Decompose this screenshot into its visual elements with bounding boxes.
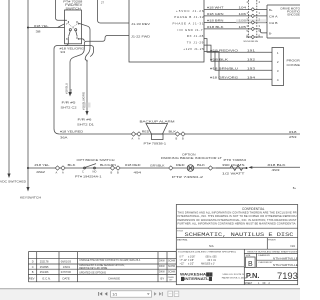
svg-text:OPT BRAKE SWITCH: OPT BRAKE SWITCH: [77, 158, 115, 162]
svg-text:J1-22 FWD: J1-22 FWD: [131, 35, 151, 39]
svg-text:NTN-HARTVILLE: NTN-HARTVILLE: [273, 257, 299, 260]
svg-text:#18 BLK: #18 BLK: [268, 163, 286, 167]
svg-text:DRAWN BY: DRAWN BY: [258, 254, 270, 257]
svg-text:I/O GND J1-7: I/O GND J1-7: [178, 28, 203, 32]
wire switch term5 down: [78, 23, 90, 62]
svg-text:191: 191: [247, 49, 256, 53]
svg-text:GRY/BLK: GRY/BLK: [150, 163, 165, 167]
svg-text:MATERIAL: MATERIAL: [177, 238, 189, 241]
svg-text:FURTHER, ALL INFORMATION CONTA: FURTHER, ALL INFORMATION CONTAINED HEREI…: [178, 221, 296, 225]
svg-text:DATE: DATE: [63, 277, 70, 281]
mate diamonds: [251, 8, 255, 11]
svg-text:BACKUP ALARM: BACKUP ALARM: [140, 119, 176, 123]
svg-text:B+: B+: [269, 8, 273, 12]
svg-text:D: D: [32, 260, 34, 264]
svg-text:SCHEMATIC, NAUTILUS E DISC: SCHEMATIC, NAUTILUS E DISC: [185, 231, 295, 238]
wire left vertical 1: [8, 0, 10, 174]
svg-text:CONFIDENTIAL: CONFIDENTIAL: [242, 207, 265, 211]
svg-text:THIS DRAWING AND ALL INFORMATI: THIS DRAWING AND ALL INFORMATION CONTAIN…: [178, 211, 297, 215]
svg-text:N/A: N/A: [291, 244, 296, 248]
svg-text:KEYSWITCH: KEYSWITCH: [20, 195, 41, 199]
svg-text:FINISH: FINISH: [268, 239, 276, 241]
wire #18 YEL 38: [28, 24, 65, 28]
ENCODER wires + connector: [204, 0, 301, 43]
svg-text:106: 106: [239, 12, 247, 16]
FWD/REV SWITCH group: [28, 0, 129, 134]
svg-text:NO: NO: [93, 170, 97, 174]
connector B pair: [110, 166, 114, 170]
svg-text:B-: B-: [269, 32, 272, 36]
svg-text:#18 BRN/BLU: #18 BRN/BLU: [210, 67, 238, 71]
junction node at keyswitch wire / #18 YEL 38: [27, 26, 29, 28]
encoder box: [267, 5, 300, 38]
svg-text:CHKD: CHKD: [168, 277, 175, 279]
svg-text:RED: RED: [176, 163, 185, 167]
svg-text:SHT2 C2: SHT2 C2: [61, 106, 78, 110]
svg-text:194: 194: [247, 76, 256, 80]
junction node at keyswitch wire / #18 YEL 492: [27, 167, 29, 169]
svg-text:± 1/2": ± 1/2": [188, 263, 194, 265]
REVISION TABLE: [28, 252, 176, 282]
svg-text:>12": >12": [180, 262, 185, 265]
svg-text:A: A: [132, 136, 134, 140]
svg-text:CHANGE THE MOTOR CNT BKR TO 30: CHANGE THE MOTOR CNT BKR TO 30 AMP, WAS …: [79, 259, 140, 262]
svg-text:#18 BRN: #18 BRN: [207, 19, 224, 23]
wire #18 WHT 104: [204, 8, 267, 10]
svg-text:36A: 36A: [60, 136, 68, 140]
svg-text:DKW: DKW: [159, 265, 165, 268]
connector halves dashed: [248, 0, 250, 39]
wire switch term6 stub: [78, 39, 84, 41]
svg-text:SWITCH: SWITCH: [66, 7, 81, 11]
svg-text:± 1/8": ± 1/8": [188, 260, 194, 262]
svg-text:A: A: [62, 170, 64, 174]
CONTROLLER box U1: [129, 0, 204, 62]
svg-text:253: 253: [289, 135, 297, 139]
svg-text:REMOVE BURRS AND BREAK SHARP E: REMOVE BURRS AND BREAK SHARP EDGES: [247, 250, 298, 253]
svg-text:DKW: DKW: [159, 270, 165, 273]
svg-text:NTN-HARTVILLE: NTN-HARTVILLE: [273, 264, 299, 267]
svg-text:BLK: BLK: [68, 163, 76, 167]
svg-text:PHASE B J1-32: PHASE B J1-32: [174, 15, 204, 19]
svg-text:7193: 7193: [277, 270, 298, 281]
svg-text:PARKING BRAKE INDICATOR LT: PARKING BRAKE INDICATOR LT: [161, 156, 222, 160]
svg-text:B: B: [117, 170, 119, 174]
svg-text:193: 193: [247, 67, 256, 71]
svg-text:390 OHMS: 390 OHMS: [222, 163, 245, 167]
svg-text:REMOVE KEY-LRC WIRE: REMOVE KEY-LRC WIRE: [79, 267, 107, 270]
svg-text:TITLE: TITLE: [177, 230, 183, 232]
wire #18 GRN 106: [204, 15, 267, 17]
svg-text:TX J1-29: TX J1-29: [187, 40, 204, 44]
svg-text:SHEET: SHEET: [245, 283, 253, 285]
svg-text:#18: #18: [289, 130, 297, 134]
wire #18 BLK 192: [204, 45, 272, 61]
svg-text:104: 104: [239, 6, 247, 10]
svg-text:REV: REV: [29, 277, 35, 281]
svg-text:34: 34: [60, 50, 65, 54]
BACKUP ALARM row wire #18 YEL/RED 36A: [59, 119, 300, 145]
svg-text:+12V J1-25: +12V J1-25: [183, 47, 204, 51]
logo: [180, 272, 213, 282]
svg-text:P.N.: P.N.: [246, 271, 260, 280]
svg-text:B: B: [32, 270, 34, 274]
svg-text:RX J1-28: RX J1-28: [187, 34, 204, 38]
wire #18 BLK 105: [204, 29, 267, 33]
svg-text:105: 105: [239, 25, 247, 29]
wire: [28, 167, 247, 169]
svg-text:252178: 252178: [40, 260, 49, 264]
svg-text:ENCODE: ENCODE: [288, 13, 301, 17]
svg-text:SCHM: SCHM: [168, 270, 175, 273]
svg-text:SIZE: SIZE: [246, 255, 251, 257]
svg-text:#18 RED/VIO: #18 RED/VIO: [210, 49, 239, 53]
svg-text:251406: 251406: [40, 270, 49, 274]
svg-text:A: A: [138, 136, 140, 140]
svg-text:#18 BLK: #18 BLK: [210, 58, 228, 62]
wire from top to switch term 7: [56, 0, 68, 20]
svg-text:A: A: [56, 170, 58, 174]
svg-text:.00 ± .01: .00 ± .01: [207, 260, 217, 262]
junction node at resistor output: [246, 167, 248, 169]
wire #18 RED/VIO 191: [204, 39, 272, 53]
TITLE BLOCK: [176, 205, 297, 285]
svg-text:PERMISSION OF WAUKESHA INTERNA: PERMISSION OF WAUKESHA INTERNATIONAL, IN…: [178, 218, 297, 222]
svg-text:PT# 749663: PT# 749663: [224, 158, 247, 162]
stub pin6: [246, 36, 263, 38]
svg-text:B+: B+: [293, 186, 297, 190]
svg-text:B: B: [176, 136, 178, 140]
svg-text:SCHM: SCHM: [168, 260, 175, 263]
svg-text:+5VDC J1-26: +5VDC J1-26: [176, 9, 204, 13]
svg-text:J1-33 REV: J1-33 REV: [131, 22, 150, 26]
svg-text:B: B: [248, 261, 253, 268]
svg-text:38: 38: [36, 29, 41, 33]
svg-text:B: B: [111, 170, 113, 174]
svg-text:SCHM: SCHM: [168, 265, 175, 268]
svg-text:BY: BY: [161, 277, 165, 281]
TOOLBAR: [0, 288, 300, 300]
svg-text:C: C: [32, 265, 34, 269]
wire #18 GRY/ORG 194: [215, 52, 272, 80]
svg-text:PT# 70938-1: PT# 70938-1: [144, 141, 167, 145]
svg-text:.000 ± .005: .000 ± .005: [205, 257, 217, 259]
connector B pair: [175, 132, 179, 136]
svg-text:1/2 WATT: 1/2 WATT: [222, 172, 245, 176]
svg-text:14900 U.S. ROUTE 20: 14900 U.S. ROUTE 20: [222, 274, 245, 276]
programming connector J2: [272, 48, 284, 86]
svg-text:SHT2 D1: SHT2 D1: [77, 123, 95, 127]
svg-text:0-7": 0-7": [180, 257, 184, 259]
wire left vertical 2 keyswitch: [27, 0, 29, 188]
svg-text:CHANGE: CHANGE: [108, 277, 120, 281]
svg-text:TOLERANCES (UNLESS OTHERWISE S: TOLERANCES (UNLESS OTHERWISE SPECIFIED): [178, 250, 236, 253]
svg-text:90A: 90A: [69, 89, 73, 94]
svg-text:#18 BLU: #18 BLU: [65, 83, 69, 94]
scan smudge artifact: [84, 103, 91, 108]
svg-text:± 1/16": ± 1/16": [188, 257, 195, 259]
svg-text:>7"-12": >7"-12": [180, 259, 188, 262]
svg-text:B: B: [182, 136, 184, 140]
wire J1-22 FWD stepped: [70, 36, 129, 63]
svg-text:PT# 74660-2: PT# 74660-2: [172, 175, 204, 179]
svg-text:DKW: DKW: [159, 260, 165, 263]
svg-text:#18 YEL: #18 YEL: [35, 163, 50, 167]
svg-text:07/07/00: 07/07/00: [61, 270, 72, 274]
svg-text:VDC SWITCHED: VDC SWITCHED: [0, 180, 27, 184]
connector A pair: [131, 132, 135, 136]
backup alarm BZ1: [146, 124, 168, 135]
wire J1-33 REV from top: [98, 0, 130, 23]
svg-text:#18 YEL/RED: #18 YEL/RED: [60, 130, 84, 134]
svg-text:#18 GRN: #18 GRN: [207, 12, 224, 16]
svg-text:NN NN NN NN: NN NN NN NN: [244, 41, 259, 43]
svg-text:ANGLES ± 1°: ANGLES ± 1°: [201, 262, 215, 265]
BRAKE SWITCH row wire y168: [28, 152, 300, 190]
svg-text:#18 RED: #18 RED: [125, 163, 141, 167]
svg-text:PADRE GROVE, IL 43140: PADRE GROVE, IL 43140: [222, 276, 248, 279]
wire #18 BRN/BLU 193: [204, 52, 272, 71]
svg-text:493: 493: [272, 168, 281, 172]
svg-text:#18 BLK: #18 BLK: [207, 25, 224, 29]
svg-text:1/1: 1/1: [112, 293, 117, 297]
svg-text:CONNECTOR: CONNECTOR: [287, 63, 301, 67]
svg-text:BLK: BLK: [169, 130, 177, 134]
svg-text:1/6/01: 1/6/01: [63, 265, 71, 269]
svg-text:192: 192: [247, 58, 256, 62]
svg-text:C: C: [82, 170, 84, 174]
svg-text:#18 YEL: #18 YEL: [34, 24, 49, 28]
svg-text:CHECKED BY: CHECKED BY: [258, 262, 273, 264]
lamp DS1: [187, 165, 194, 172]
wire #18 BLU/ORG: [86, 60, 88, 112]
svg-text:#18 WHT: #18 WHT: [207, 6, 224, 10]
PROGRAMMING CONNECTOR wires: [204, 39, 315, 86]
svg-text:#18 GRY/ORG: #18 GRY/ORG: [210, 76, 238, 80]
svg-text:CH B: CH B: [269, 21, 278, 25]
wire #18 BRN 108: [204, 21, 267, 23]
wire #18 BLK 493 with left arrow: [248, 166, 252, 169]
svg-text:INTERNATIONAL, INC. THIS DRAWI: INTERNATIONAL, INC. THIS DRAWING IS NOT …: [178, 214, 297, 218]
svg-text:RED: RED: [142, 130, 150, 134]
svg-text:PT# 194254A-1: PT# 194254A-1: [75, 174, 102, 178]
svg-text:251895: 251895: [40, 265, 49, 269]
wire: [59, 133, 300, 135]
SCHEMATIC AREA: [0, 0, 41, 199]
svg-text:06/01/03: 06/01/03: [61, 260, 72, 264]
svg-text:492: 492: [36, 170, 46, 174]
switch FWD/REV S1: [65, 10, 82, 44]
svg-text:PHASE A J1-31: PHASE A J1-31: [173, 22, 204, 26]
connector A pair: [55, 166, 59, 170]
wire #18 BLU 90A: [69, 62, 71, 93]
svg-text:CH A: CH A: [269, 14, 278, 18]
svg-text:494: 494: [134, 170, 142, 174]
svg-text:E.C.N.: E.C.N.: [43, 277, 51, 281]
wire #18 YEL/ORG 34: [54, 39, 68, 134]
svg-text:UPDATED GE OPTIONS: UPDATED GE OPTIONS: [79, 271, 106, 274]
svg-text:PROGRAMMING: PROGRAMMING: [287, 59, 301, 63]
svg-text:F/R #5: F/R #5: [62, 101, 77, 105]
svg-text:N/A: N/A: [209, 244, 214, 248]
svg-text:F/R #6: F/R #6: [78, 118, 93, 122]
svg-text:BLK: BLK: [197, 163, 205, 167]
